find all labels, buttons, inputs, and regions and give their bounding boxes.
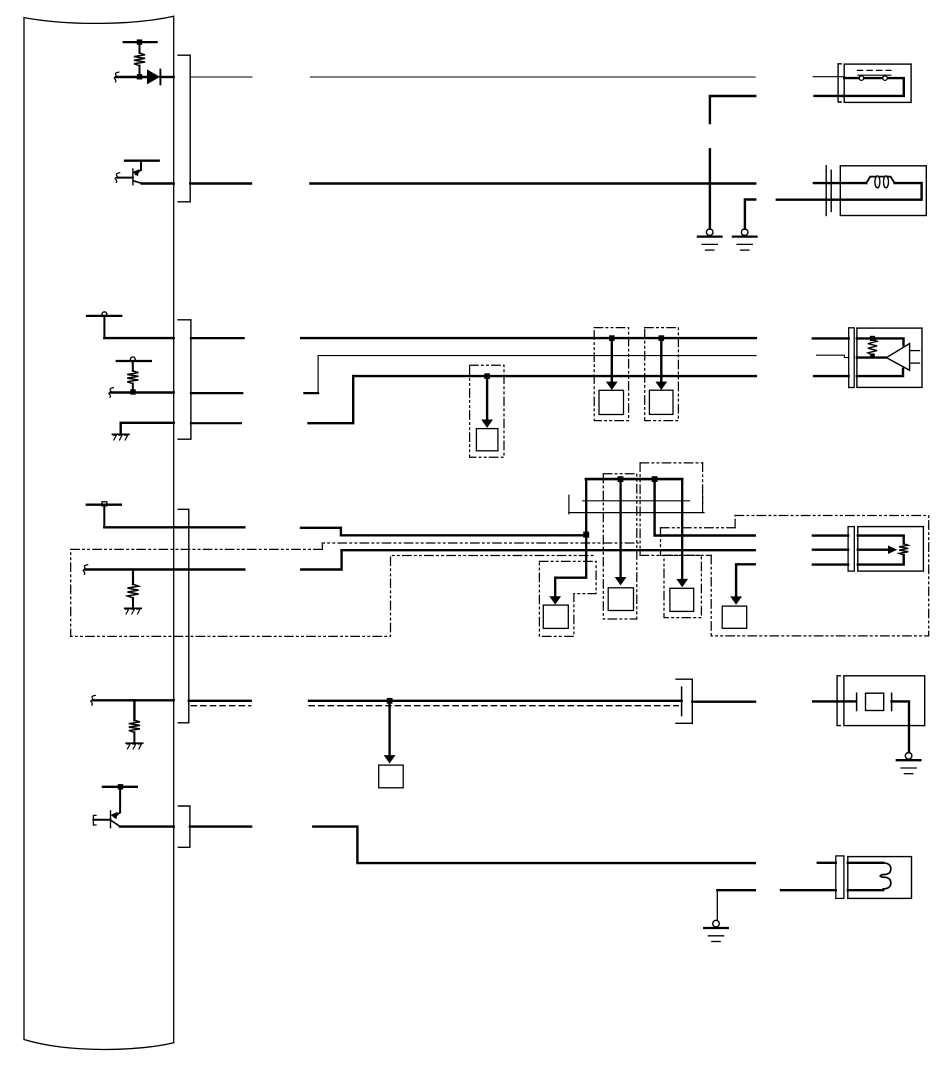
junction dot on row3 wire1 at G2 [609,335,615,341]
wire row3-2 step [304,356,318,394]
bus bar row4 [586,478,682,481]
shield boundary step [322,543,638,549]
heater element [880,863,891,889]
row3 supply terminal circle [102,312,107,317]
wire stub to L1 top [814,182,866,184]
wire Q1 to ECM edge [142,182,174,184]
connector ref box G3 outline [645,328,679,421]
connector ref box G1 outline [470,365,504,457]
wire row2 segment a [190,182,251,184]
transistor Q1 emitter [132,161,141,177]
ground G1 [698,229,722,250]
dashed wire row5 segment a [191,705,251,707]
shield box over bus [640,463,703,556]
wire row3-1 segment a [191,337,244,339]
wire row6 segment b [313,827,755,864]
junction dot on row3 wire3 [484,373,490,379]
transistor Q2 base bar [110,811,112,828]
wire circle to row3 wire1 [103,317,105,339]
switch S1 bracket [838,64,841,102]
transistor Q1 base hook [115,173,120,183]
row6 bar junction dot [118,784,123,789]
heater connector bar [836,856,844,899]
sensor U2 box [858,527,924,572]
chassis ground row4 [125,608,142,614]
wire row3-3 segment a [191,422,241,424]
switch S1 contact a [859,76,864,81]
row3 mid terminal circle [130,357,135,362]
transistor Q2 base hook [93,815,96,825]
sensor U3 lead-in [844,700,856,702]
heater top trace [848,862,883,864]
ground G4 [704,920,728,941]
solenoid L1 connector bar a [825,166,827,216]
arrow to connector sqA [481,376,493,428]
bus junction dot a [618,476,624,482]
solenoid L1 box [840,166,926,216]
wire stub row4 mid [813,549,848,551]
wire stub row4 bottom [813,563,848,565]
wire to resistor R4 [133,700,135,720]
sensor U3 element square [866,693,884,710]
transistor Q2 emitter [111,787,121,819]
connector ref box G2 outline [594,328,628,421]
junction connector strip top [583,500,690,502]
solenoid L1 connector bar b [830,170,832,211]
wire R2 to row3 wire2 [132,384,134,393]
wire row3-2 segment b [318,355,756,357]
junction dot leg1 wireA [583,532,589,538]
resistor R4 [129,720,140,732]
transistor Q2 collector [111,820,120,826]
resistor R6 in sensor [899,544,908,555]
wire row3-2 ECM [111,391,174,393]
ECM/PCM control module right edge wire [173,16,175,1042]
wire stub to S1 bottom [815,95,845,97]
wire row2 segment b [310,182,755,184]
junction dot row5 [387,698,393,704]
wire stub row3-3 [814,375,849,377]
coil loop b [884,176,889,188]
dashed wire row5 segment b [309,705,678,707]
wire R3 to ground [132,598,134,608]
connector square sq2 [608,588,633,611]
wire stub from L1 bottom [777,198,833,200]
connector bracket B2 [178,320,191,439]
connector square sq1 [543,605,568,628]
switch S1 internal wiring [844,78,904,96]
hook terminal row5 [91,695,96,705]
chassis ground row3 [112,434,129,440]
sensor U1 top trace [857,338,904,345]
wire bar to resistor R1 [139,42,141,53]
connector square sqB [599,390,624,414]
amplifier triangle U1 [886,344,909,371]
chassis ground row5 [126,743,143,749]
wire row4-A step [301,528,586,536]
solenoid L1 return wiring [832,183,921,200]
diode D1 [147,69,160,84]
wire stub row3-1 [813,337,849,339]
sensor U3 box [844,676,925,726]
shield bottom mid [640,555,711,636]
sensor U3 bracket [837,676,840,726]
arrow to connector sq5 [384,701,396,764]
wire row1 segment a [190,76,252,78]
wire square to row4 wireA [103,506,105,528]
wire row4-B main [342,549,755,551]
wire diode to ECM edge [160,76,173,78]
row6 internal bar [103,786,137,788]
resistor R5 in sensor [868,339,877,355]
shield box around sq3 [664,555,701,617]
shield box around sq1 [539,561,596,636]
transistor Q1 collector [133,181,141,184]
sensor U1 connector bar [849,328,855,388]
row3 mid bar [117,360,151,362]
heater box [848,857,912,899]
ground G3 [897,753,921,774]
wire row5 ECM [93,699,174,701]
heater bottom trace [848,889,883,891]
connector bracket B4 [178,806,190,847]
ground G2 [733,229,757,250]
wire stub to sensor row5 [813,700,844,702]
coil loop a [875,176,880,188]
wire row6 ground jog [717,890,755,920]
wire row5 segment b [309,700,682,702]
row1 bar junction dot [137,39,142,44]
wire stub to S1 top [813,76,844,78]
wire row3-1 segment b [301,337,756,339]
sensor U1 output stub a [910,350,920,352]
junction dot row3 wire2 [130,389,135,394]
solenoid L1 coil lead-in [866,177,894,184]
arrow to connector sq1 [549,596,561,604]
junction connector strip right cap [702,495,704,513]
junction connector strip left cap [568,495,570,514]
sensor U2 top trace [858,536,904,544]
arrow to connector sqC [655,338,667,390]
switch S1 contact b [883,76,888,81]
sensor U3 plate a [856,693,858,710]
wire row1 ground drop [709,149,711,229]
sensor U1 output stub b [910,362,920,364]
wire stub to sensor row6 bottom [781,889,836,891]
junction dot row1 [137,74,142,79]
wire stub row4 top [813,534,848,536]
wire row1 to diode [116,76,147,78]
wire row5 segment c [692,701,755,703]
hook terminal row1 [114,72,119,82]
arrow to connector sqB [606,338,618,390]
sensor U1 box [857,328,922,387]
ECM bottom torn edge [24,1040,174,1050]
connector square sqC [649,390,673,414]
wire row3-3 ECM [121,423,174,434]
wire R1 to node [139,66,141,77]
sensor U1 resistor top dot [870,336,875,341]
sensor U1 bottom trace [857,369,903,376]
shield divider [660,528,662,556]
sensor U2 bottom trace [858,555,904,565]
wire row1 segment b [310,76,755,78]
wire row3-3 segment b [353,375,756,377]
switch S1 dashed link [857,69,891,71]
hook terminal row4 wireB [83,565,88,575]
sensor U2 connector bar [848,527,854,572]
connector square sqA [476,429,498,451]
wire row5 segment a [189,700,251,702]
switch S1 box [844,64,911,102]
shield link to right box [661,516,736,528]
wire row2 ground jog [745,200,755,229]
bus leg3 wire to sensor [655,479,755,535]
shield right big box [711,516,929,636]
ECM/PCM control module left edge wire [23,18,25,1040]
row4 supply bar [87,504,121,506]
bus leg4 wire [676,479,688,587]
shield box around leg2 [603,474,637,619]
connector square sq5 [379,765,404,788]
row4 supply terminal square [102,502,107,506]
wire to resistor R3 [132,570,134,585]
transistor Q2 base lead [93,819,110,821]
hook terminal row3 wire2 [109,388,114,398]
row3 sensor supply bar [87,315,121,317]
wire row1 jog at x710 [710,96,755,123]
connector square sq3 [670,588,694,611]
connector bracket B3 [178,509,189,723]
resistor R3 [127,584,138,598]
connector square sq4 [722,606,747,628]
resistor R1 [134,53,145,66]
wire jog to sq4 [730,564,755,605]
transistor Q1 base bar [132,169,134,185]
junction dot on row3 wire1 at G3 [659,335,665,341]
wire stub row3-2 [817,355,849,357]
wire row6 segment a [190,825,251,827]
row2 internal bar [125,160,159,162]
wire Q2 to ECM edge [120,825,174,827]
inline connector C1 [676,679,692,723]
sensor U3 out wiring [892,701,909,752]
wire row3-3 step [309,376,354,423]
shield boundary left box [71,549,596,636]
ECM top torn edge [24,16,174,23]
junction connector strip bottom [569,512,704,514]
resistor R2 [127,371,138,384]
switch S1 blade [858,74,891,76]
wire row3-2 segment a [191,392,242,394]
wire row4-A ECM [104,526,244,528]
sensor U3 plate b [891,693,893,710]
wire circle to resistor R2 [132,362,134,371]
bus junction dot b [652,476,658,482]
bus leg1 wire [555,479,586,597]
sensor U1 mid trace [857,356,887,358]
wire R4 to ground [133,732,135,742]
row1 internal supply bar [124,41,157,43]
connector bracket B1 [178,55,190,202]
wire row3-1 ECM [104,337,173,339]
wire stub to sensor row6 top [818,862,836,864]
wire row4-B step [301,550,341,569]
bus leg2 wire [615,479,627,585]
transistor Q1 base lead [117,177,133,179]
sensor U1 resistor bottom dot [870,354,875,359]
sensor U2 wiper trace [858,545,897,554]
wire row4-B ECM [85,568,244,570]
